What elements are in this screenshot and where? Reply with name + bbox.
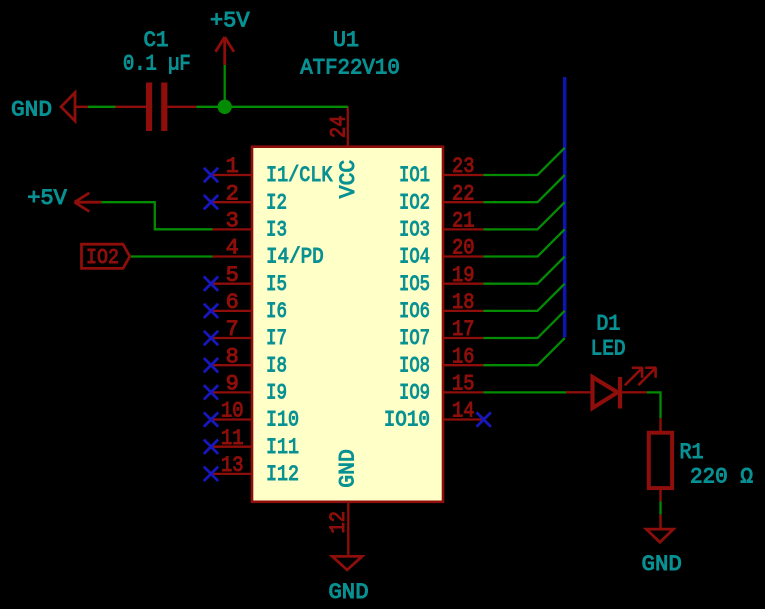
svg-text:IO3: IO3 <box>399 218 430 243</box>
svg-text:3: 3 <box>226 209 239 234</box>
svg-text:IO2: IO2 <box>399 190 430 215</box>
svg-text:21: 21 <box>452 209 475 234</box>
svg-text:17: 17 <box>452 317 475 342</box>
svg-text:I8: I8 <box>266 353 287 378</box>
svg-text:I1/CLK: I1/CLK <box>266 163 333 188</box>
svg-text:IO7: IO7 <box>399 326 430 351</box>
svg-text:8: 8 <box>226 344 239 369</box>
svg-text:I7: I7 <box>266 326 287 351</box>
svg-text:+5V: +5V <box>27 186 67 211</box>
svg-text:2: 2 <box>226 181 239 206</box>
svg-text:IO4: IO4 <box>399 245 430 270</box>
svg-text:IO9: IO9 <box>399 381 430 406</box>
svg-text:C1: C1 <box>144 28 169 53</box>
svg-text:IO2: IO2 <box>86 247 119 270</box>
svg-text:11: 11 <box>221 426 244 451</box>
svg-text:5: 5 <box>226 263 239 288</box>
svg-text:I11: I11 <box>266 435 299 460</box>
svg-text:220 Ω: 220 Ω <box>690 465 753 490</box>
svg-text:I9: I9 <box>266 381 287 406</box>
svg-text:12: 12 <box>326 511 351 534</box>
svg-text:GND: GND <box>336 449 361 488</box>
svg-text:24: 24 <box>327 116 352 139</box>
svg-text:GND: GND <box>642 552 682 577</box>
svg-text:9: 9 <box>226 372 239 397</box>
svg-text:19: 19 <box>452 263 475 288</box>
svg-text:I2: I2 <box>266 190 287 215</box>
svg-text:I10: I10 <box>266 408 299 433</box>
svg-text:+5V: +5V <box>210 9 250 34</box>
svg-text:I5: I5 <box>266 272 287 297</box>
svg-text:20: 20 <box>452 236 475 261</box>
svg-text:IO5: IO5 <box>399 272 430 297</box>
svg-text:IO10: IO10 <box>384 408 430 433</box>
svg-text:U1: U1 <box>333 28 359 53</box>
svg-text:I12: I12 <box>266 462 299 487</box>
svg-text:23: 23 <box>452 154 475 179</box>
svg-text:22: 22 <box>452 181 475 206</box>
svg-text:4: 4 <box>226 236 239 261</box>
svg-text:15: 15 <box>452 372 475 397</box>
svg-text:D1: D1 <box>596 311 620 336</box>
svg-text:0.1 µF: 0.1 µF <box>123 52 191 77</box>
svg-text:10: 10 <box>221 399 244 424</box>
svg-text:6: 6 <box>226 290 239 315</box>
svg-text:1: 1 <box>226 154 239 179</box>
svg-text:16: 16 <box>452 344 475 369</box>
svg-text:LED: LED <box>591 336 626 361</box>
svg-text:14: 14 <box>452 399 475 424</box>
svg-text:R1: R1 <box>680 440 704 465</box>
svg-text:VCC: VCC <box>336 160 361 199</box>
svg-text:7: 7 <box>226 317 239 342</box>
svg-text:GND: GND <box>328 580 368 605</box>
svg-text:ATF22V10: ATF22V10 <box>300 56 400 81</box>
svg-text:GND: GND <box>11 98 52 123</box>
svg-text:I3: I3 <box>266 218 287 243</box>
svg-text:13: 13 <box>221 453 244 478</box>
svg-text:IO6: IO6 <box>399 299 430 324</box>
svg-text:IO8: IO8 <box>399 353 430 378</box>
svg-text:IO1: IO1 <box>399 163 430 188</box>
svg-text:18: 18 <box>452 290 475 315</box>
svg-text:I6: I6 <box>266 299 287 324</box>
svg-text:I4/PD: I4/PD <box>266 245 324 270</box>
